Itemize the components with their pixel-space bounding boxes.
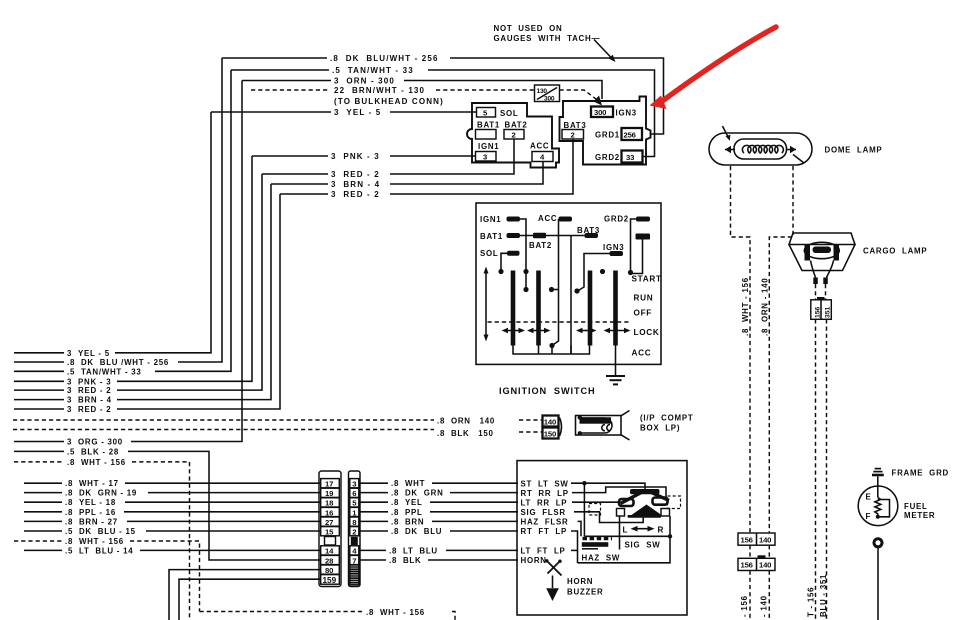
svg-text:R: R <box>658 526 665 535</box>
svg-text:E: E <box>866 493 872 502</box>
svg-text:START: START <box>632 275 662 284</box>
contact dot IGN1 lower <box>523 287 528 292</box>
svg-text:RUN: RUN <box>634 294 654 303</box>
svg-text:.8 WHT - 156: .8 WHT - 156 <box>366 608 425 617</box>
sig sw right moving contact <box>653 498 668 505</box>
dome lamp filament coil <box>742 145 783 153</box>
wire stub 3 RED - 2 a <box>14 389 64 391</box>
wire 3 YEL - 5 left segment <box>211 111 331 113</box>
wire 3 PNK - 3 left segment <box>252 155 328 157</box>
wire stub 3 RED - 2 b <box>14 408 64 410</box>
wire .8 PPL - 16 to cavity 16 <box>124 511 320 513</box>
ip compt lamp left contact lower <box>578 431 582 435</box>
dome lamp left leader arrow <box>723 126 729 138</box>
svg-text:IGN3: IGN3 <box>603 243 624 252</box>
wire vertical riser 3 PNK - 3 <box>117 156 252 381</box>
svg-text:HAZ SW: HAZ SW <box>582 553 621 562</box>
svg-text:BAT3: BAT3 <box>564 121 587 130</box>
left column cavity 18 <box>321 498 340 507</box>
left column cavity 14 <box>321 546 340 555</box>
sig sw right fixed contact <box>661 509 670 517</box>
left column neck <box>325 537 336 546</box>
wiper arrow bar1 <box>502 328 526 333</box>
cargo lamp left pin <box>813 278 818 285</box>
wire bar4 to ground <box>615 346 617 376</box>
right column hatched cavity c <box>350 579 359 585</box>
terminal box 2 (BAT2) <box>504 130 524 140</box>
sig sw box outline <box>578 536 671 563</box>
svg-text:BOX LP): BOX LP) <box>640 424 680 433</box>
terminal box 33 (GRD2) <box>622 151 643 163</box>
svg-text:ACC: ACC <box>538 214 557 223</box>
svg-text:BAT2: BAT2 <box>505 121 528 130</box>
left column cavity 28 <box>321 555 340 564</box>
svg-text:GRD2: GRD2 <box>595 153 620 162</box>
svg-text:3: 3 <box>483 152 487 161</box>
svg-text:HORN: HORN <box>521 556 547 565</box>
horn contact dot b <box>558 560 561 563</box>
contact dot SOL <box>498 269 503 274</box>
wire stub 3 ORG - 300 <box>14 441 64 443</box>
wire .5 TAN/WHT - 33 left segment <box>231 69 329 71</box>
svg-text:3 ORG - 300: 3 ORG - 300 <box>67 438 123 447</box>
contact dot ACC mid <box>549 287 554 292</box>
GRD2 terminal stub <box>636 217 650 222</box>
wire ST LT SW junction <box>571 483 645 536</box>
wire stub .8 DK GRN - 19 <box>24 492 62 494</box>
svg-text:.8 BRN: .8 BRN <box>391 517 424 526</box>
IGN1 terminal stub <box>507 217 521 222</box>
wire dashed BLK into 150 box <box>519 431 543 433</box>
contact dot GRD2 <box>628 270 633 275</box>
svg-text:14: 14 <box>325 547 334 556</box>
terminal box 256 (GRD1) <box>622 128 643 140</box>
splice symbol 130/300 box <box>535 85 560 102</box>
wire .5 TAN/WHT - 33 right segment to GRD2 terminal <box>428 70 655 157</box>
svg-text:NOT USED ON: NOT USED ON <box>494 24 563 33</box>
sig sw pivot bar <box>628 515 662 518</box>
terminal box 5 (SOL) <box>477 108 496 118</box>
wire 3 ORN - 300 right segment dropping to 300 terminal <box>404 81 602 100</box>
connector 156/351 top tab <box>817 297 825 300</box>
svg-text:- 140: - 140 <box>759 595 768 617</box>
svg-text:ACC: ACC <box>530 142 549 151</box>
cargo lamp bulb filled <box>813 247 832 254</box>
horn contact blade b <box>548 562 560 574</box>
terminal box 3 (IGN1) <box>476 152 497 162</box>
fuel meter F node dot <box>876 515 880 519</box>
left column cavity 15 <box>321 527 340 536</box>
wire ACC dropping to lower contact <box>552 219 559 346</box>
wire 3 ORN - 300 left segment <box>242 80 331 82</box>
svg-text:GRD2: GRD2 <box>604 215 629 224</box>
wire cavity 2 to label <box>360 530 388 532</box>
wire dashed dome lamp ORN-140 drop <box>769 166 793 533</box>
wire vertical riser 3 ORN - 300 <box>131 81 242 442</box>
svg-text:3 RED - 2: 3 RED - 2 <box>67 386 111 395</box>
wire .8 DK BLU/WHT - 256 right segment to GRD1 terminal <box>450 58 664 134</box>
right column hatched cavity b <box>350 572 359 578</box>
svg-text:2: 2 <box>571 130 575 139</box>
sig sw right wing <box>647 491 669 501</box>
wire dashed .8 WHT - 156 bottom run <box>200 611 363 613</box>
wire cavity 3 to label <box>360 482 388 484</box>
svg-text:SOL: SOL <box>500 109 518 118</box>
svg-text:BAT2: BAT2 <box>529 241 552 250</box>
BAT3 terminal stub <box>585 233 599 238</box>
right column cavity 6 <box>350 488 359 497</box>
right column cavity 8 <box>350 517 359 526</box>
left column cavity 17 <box>321 479 340 488</box>
connector right column outline <box>349 471 361 587</box>
cargo lamp flange <box>789 233 855 245</box>
svg-text:BAT1: BAT1 <box>480 232 503 241</box>
svg-text:7: 7 <box>352 556 356 565</box>
svg-text:2: 2 <box>352 528 356 537</box>
wire 22 BRN/WHT - 130 dashed left segment <box>251 89 330 91</box>
svg-text:.8 ORN 140: .8 ORN 140 <box>437 417 495 426</box>
contact dot IGN1 upper <box>523 269 528 274</box>
switch slider bar 3 <box>588 271 593 346</box>
svg-text:.8 WHT - 17: .8 WHT - 17 <box>65 479 119 488</box>
svg-text:- 156: - 156 <box>740 595 749 617</box>
wire stub .8 WHT - 17 <box>24 482 62 484</box>
ip compt lamp housing <box>576 416 622 436</box>
terminal box 4 (ACC) <box>532 152 553 162</box>
svg-text:.8 BRN - 27: .8 BRN - 27 <box>65 517 118 526</box>
right column filled cavity <box>351 537 358 545</box>
wire dashed .8 WHT - 156 upper dropping to bottom edge <box>132 462 190 620</box>
junction dot ST LT SW <box>582 481 586 485</box>
cargo lamp right bracket <box>834 245 840 261</box>
wire to RT FT LP <box>450 530 518 532</box>
wiper arrow bar3 <box>576 328 597 333</box>
dome lamp outer housing <box>709 133 812 165</box>
sig sw top contact bar <box>630 489 660 494</box>
fuel meter resistor <box>875 498 881 517</box>
wire dashed cargo pins to connector <box>816 284 826 300</box>
wire 22 BRN/WHT - 130 dashed right segment to splice <box>436 89 535 91</box>
dome lamp left contact <box>725 149 735 151</box>
contact dot mid-right <box>600 269 605 274</box>
wire START bar to contact <box>631 240 643 274</box>
wire cavity 7 to label <box>360 559 386 561</box>
wire to LT FT LP <box>446 549 518 551</box>
wire LT RR LP to left contact <box>572 501 621 503</box>
cargo lamp bulb outline <box>804 242 839 258</box>
left column cavity 159 <box>321 575 340 585</box>
wire to HAZ FLSR <box>432 520 518 522</box>
terminal box 300 (IGN3) <box>591 107 613 118</box>
wire dashed cargo DK BLU-351 drop <box>826 319 828 620</box>
svg-text:3: 3 <box>352 480 356 489</box>
wire cavity 159 exiting down-left <box>179 579 320 620</box>
svg-text:HAZ FLSR: HAZ FLSR <box>521 518 569 527</box>
svg-text:156: 156 <box>741 561 753 570</box>
svg-text:ACC: ACC <box>632 349 652 358</box>
ip compt lamp filament bar <box>580 417 612 423</box>
svg-text:15: 15 <box>325 528 334 537</box>
wire LT FT LP join <box>571 549 578 551</box>
svg-text:3 PNK - 3: 3 PNK - 3 <box>67 377 111 386</box>
wire dashed .8 ORN - 140 long run <box>13 419 434 421</box>
svg-text:156: 156 <box>814 306 821 318</box>
connector 156/140 lower tab <box>758 555 766 558</box>
svg-text:F: F <box>866 512 872 521</box>
sig sw left fixed contact <box>617 509 625 517</box>
right column cavity 2 <box>350 527 359 536</box>
SOL terminal stub <box>507 251 520 256</box>
wire .8 DK GRN - 19 to cavity 19 <box>148 492 320 494</box>
svg-text:T - 156: T - 156 <box>807 587 816 617</box>
travel arrow (double headed) <box>485 272 487 336</box>
wire 3 RED - 2 right segment to BAT3 terminal 2 <box>390 139 573 194</box>
dome lamp right contact <box>786 149 796 151</box>
connector box 140 <box>543 416 559 427</box>
switch slider bar 4 <box>613 271 618 346</box>
wire dashed stub .8 WHT - 156 upper <box>14 461 64 463</box>
wire vertical riser 3 BRN - 4 <box>117 184 271 400</box>
haz sw solid slider bar <box>582 542 609 547</box>
wire vertical riser .5 TAN/WHT - 33 <box>155 70 231 371</box>
fuel meter coil loop <box>878 500 890 517</box>
svg-text:.8 DK GRN - 19: .8 DK GRN - 19 <box>65 489 137 498</box>
svg-text:156: 156 <box>741 535 753 544</box>
wire vertical riser 3 YEL - 5 <box>115 112 211 353</box>
svg-text:.8 PPL: .8 PPL <box>391 508 423 517</box>
svg-text:SIG FLSR: SIG FLSR <box>521 508 566 517</box>
svg-text:.5 LT BLU - 14: .5 LT BLU - 14 <box>65 546 133 555</box>
ip compt lamp bulb outline <box>580 418 613 433</box>
wire stub 3 YEL - 5 <box>14 352 64 354</box>
connector C2 ignition switch connector body <box>560 97 651 165</box>
wire dashed between 156/140 connectors <box>750 545 769 558</box>
wire 3 RED - 2 right segment to BAT2 terminal 2 <box>390 139 514 175</box>
lower bus joining sliders <box>513 346 590 355</box>
svg-text:RT RR LP: RT RR LP <box>521 489 569 498</box>
wire right fixed contact drop <box>669 516 671 536</box>
svg-text:17: 17 <box>325 480 333 489</box>
wire .8 WHT - 17 to cavity 17 <box>125 482 320 484</box>
svg-text:80: 80 <box>325 566 333 575</box>
wire to RT RR LP <box>450 492 518 494</box>
svg-text:(TO BULKHEAD CONN): (TO BULKHEAD CONN) <box>334 97 444 106</box>
svg-text:GRD1: GRD1 <box>595 131 620 140</box>
dome lamp right leader line <box>793 155 804 164</box>
svg-text:28: 28 <box>325 556 334 565</box>
svg-text:(I/P COMPT: (I/P COMPT <box>640 414 693 423</box>
contact dot IGN3 <box>574 288 579 293</box>
wire HAZ FLSR drop <box>578 521 582 536</box>
svg-text:2: 2 <box>512 130 516 139</box>
svg-text:OFF: OFF <box>634 309 652 318</box>
connector 156/140 lower body <box>738 558 775 570</box>
horn buzzer arrow <box>546 588 559 601</box>
dome lamp festoon bulb body <box>734 139 787 159</box>
haz sw bar underline <box>582 548 598 550</box>
connector bracket <box>560 418 562 437</box>
svg-text:RT FT LP: RT FT LP <box>521 527 568 536</box>
svg-text:18: 18 <box>325 499 334 508</box>
svg-text:16: 16 <box>325 508 333 517</box>
junction dot sig sw box corner <box>668 534 672 538</box>
ip compt lamp filament coil <box>602 425 610 431</box>
ip compt lamp housing corner tick lower <box>621 435 630 440</box>
svg-text:3 YEL - 5: 3 YEL - 5 <box>334 108 381 117</box>
wire stub 3 PNK - 3 <box>14 380 64 382</box>
wire dashed .8 WHT - 156 lower to bottom run <box>130 541 200 612</box>
svg-text:27: 27 <box>325 518 333 527</box>
ACC terminal stub <box>559 217 573 222</box>
wire to SIG FLSR <box>430 511 518 513</box>
svg-text:BUZZER: BUZZER <box>567 587 604 596</box>
cargo lamp right leg <box>827 261 834 278</box>
svg-text:.8 WHT: .8 WHT <box>391 479 425 488</box>
svg-text:.8 DK BLU/WHT - 256: .8 DK BLU/WHT - 256 <box>330 54 439 63</box>
svg-text:FRAME GRD: FRAME GRD <box>892 469 949 478</box>
sig sw left dashed contact <box>589 504 601 516</box>
svg-text:159: 159 <box>323 576 337 585</box>
wire 3 PNK - 3 right segment to IGN1 terminal 3 <box>390 155 476 157</box>
svg-text:GAUGES WITH TACH—: GAUGES WITH TACH— <box>494 34 601 43</box>
wire SOL to contact <box>501 253 507 271</box>
svg-text:.8 YEL - 18: .8 YEL - 18 <box>65 498 116 507</box>
dashed LOCK position line <box>488 321 630 323</box>
svg-text:ST LT SW: ST LT SW <box>521 479 569 488</box>
wire .5 LT BLU - 14 to cavity 14 <box>140 549 320 551</box>
terminal box BAT1 (blank) <box>476 130 497 140</box>
wire to LT RR LP <box>430 501 518 503</box>
wire GRD2 to contact <box>631 219 637 273</box>
wiper arrow bar4 <box>604 328 631 333</box>
svg-text:.8 DK GRN: .8 DK GRN <box>391 489 444 498</box>
svg-text:IGN1: IGN1 <box>480 215 501 224</box>
svg-text:HORN: HORN <box>567 577 593 586</box>
wire .5 DK BLU - 15 to cavity 15 <box>146 530 320 532</box>
svg-text:140: 140 <box>759 535 771 544</box>
left column cavity 27 <box>321 517 340 526</box>
haz sw dashed slider bar <box>583 537 613 540</box>
left column cavity 16 <box>321 507 340 516</box>
right column cavity 4 <box>350 546 359 555</box>
wire vertical riser 3 RED - 2 (a) <box>117 174 262 390</box>
ignition switch detail box <box>476 203 661 364</box>
svg-text:19: 19 <box>325 489 333 498</box>
svg-text:.8 BLK: .8 BLK <box>389 556 421 565</box>
wire RT RR LP to right contact <box>572 487 666 497</box>
svg-text:3 PNK - 3: 3 PNK - 3 <box>331 152 380 161</box>
svg-text:.8 PPL - 16: .8 PPL - 16 <box>65 508 116 517</box>
wire cavity 5 to label <box>360 501 388 503</box>
svg-text:FUEL: FUEL <box>904 502 928 511</box>
switch slider bar 1 <box>511 271 516 346</box>
connector 156/140 lower divider <box>756 558 758 570</box>
wire RT FT LP drop <box>571 531 578 563</box>
svg-text:33: 33 <box>626 153 634 162</box>
wire left fixed contact drop <box>619 516 621 550</box>
connector 156/140 upper divider <box>756 533 758 545</box>
IGN3 terminal stub <box>610 251 624 256</box>
turn signal switch box <box>517 461 687 615</box>
wire vertical riser .8 DK BLU/WHT - 256 <box>178 58 222 362</box>
wire 3 RED - 2 (BAT3) left segment <box>280 193 328 195</box>
svg-text:L: L <box>623 526 629 535</box>
wire SIG FLSR to pivot <box>574 512 643 523</box>
svg-text:LT RR LP: LT RR LP <box>521 498 568 507</box>
svg-text:METER: METER <box>904 511 935 520</box>
svg-text:CARGO LAMP: CARGO LAMP <box>863 247 927 256</box>
wire IGN3 to contact <box>578 254 610 292</box>
wire dashed 140 below connector <box>768 571 770 620</box>
left column cavity 80 <box>321 565 340 574</box>
wire dashed ORN into 140 box <box>519 419 543 421</box>
wire .5 BLK - 28 to connector cavity 28 <box>128 451 320 560</box>
wire ACC mid contact tie <box>552 289 559 291</box>
svg-text:3 YEL - 5: 3 YEL - 5 <box>67 349 110 358</box>
svg-text:3 RED - 2: 3 RED - 2 <box>67 405 111 414</box>
connector C1 ignition switch connector body <box>467 103 559 168</box>
wire dashed .8 WHT - 156 bottom corner <box>452 612 455 620</box>
connector box 150 <box>543 428 559 439</box>
svg-text:LT FT LP: LT FT LP <box>521 547 566 556</box>
svg-text:3 BRN - 4: 3 BRN - 4 <box>331 180 380 189</box>
wire stub .8 DK BLU/WHT - 256 <box>14 361 64 363</box>
svg-text:3 RED - 2: 3 RED - 2 <box>331 170 380 179</box>
fuel sender ring terminal <box>874 539 882 547</box>
svg-text:.8 DK BLU: .8 DK BLU <box>391 527 442 536</box>
leader line from TACH note to 256 circuit <box>594 40 613 60</box>
sig sw pivot triangle <box>632 505 662 516</box>
right column cavity 1 <box>350 507 359 516</box>
leader arrowhead <box>609 55 616 62</box>
svg-text:.8 WHT - 156: .8 WHT - 156 <box>741 277 750 336</box>
right column cavity 5 <box>350 498 359 507</box>
BAT1 terminal stub <box>507 233 521 238</box>
left column cavity 19 <box>321 488 340 497</box>
svg-text:.8 DK BLU /WHT - 256: .8 DK BLU /WHT - 256 <box>67 358 169 367</box>
connector left column outline <box>319 471 341 587</box>
wire dashed .8 BLK - 150 long run <box>13 429 434 431</box>
connector 156/140 upper body <box>738 533 775 545</box>
svg-text:SOL: SOL <box>480 249 498 258</box>
wire stub .8 YEL - 18 <box>24 501 62 503</box>
contact dot ACC lower <box>549 343 554 348</box>
wire .8 DK BLU/WHT - 256 left segment <box>222 57 327 59</box>
arrowhead into 300 terminal <box>594 96 603 106</box>
ground symbol (ignition switch) <box>606 376 625 384</box>
connector 156/351 body <box>811 300 832 320</box>
wire BAT bus drop to lower bus <box>570 236 572 355</box>
wire cavity 6 to label <box>360 492 388 494</box>
wire to ST LT SW <box>432 482 518 484</box>
wire stub .5 BLK - 28 <box>14 450 64 452</box>
wire .8 YEL - 18 to cavity 18 <box>125 501 320 503</box>
ip compt lamp housing corner tick upper <box>621 411 630 416</box>
START contact bar <box>636 234 651 240</box>
ip compt lamp left contact upper <box>578 415 582 419</box>
wire BAT bus <box>520 235 585 237</box>
svg-text:SIG SW: SIG SW <box>625 540 661 549</box>
svg-text:BLU - 351: BLU - 351 <box>819 574 828 617</box>
red annotation arrow shaft <box>663 27 776 101</box>
svg-text:256: 256 <box>624 130 636 139</box>
svg-text:3 BRN - 4: 3 BRN - 4 <box>67 396 112 405</box>
wire stub .5 TAN/WHT - 33 <box>14 370 64 372</box>
wire 3 YEL - 5 right segment to SOL terminal 5 <box>390 111 476 113</box>
wire stub .5 DK BLU - 15 <box>24 530 62 532</box>
wire dashed stub .8 WHT - 156 lower <box>14 540 62 542</box>
wire dashed 156 below connector <box>749 571 751 620</box>
